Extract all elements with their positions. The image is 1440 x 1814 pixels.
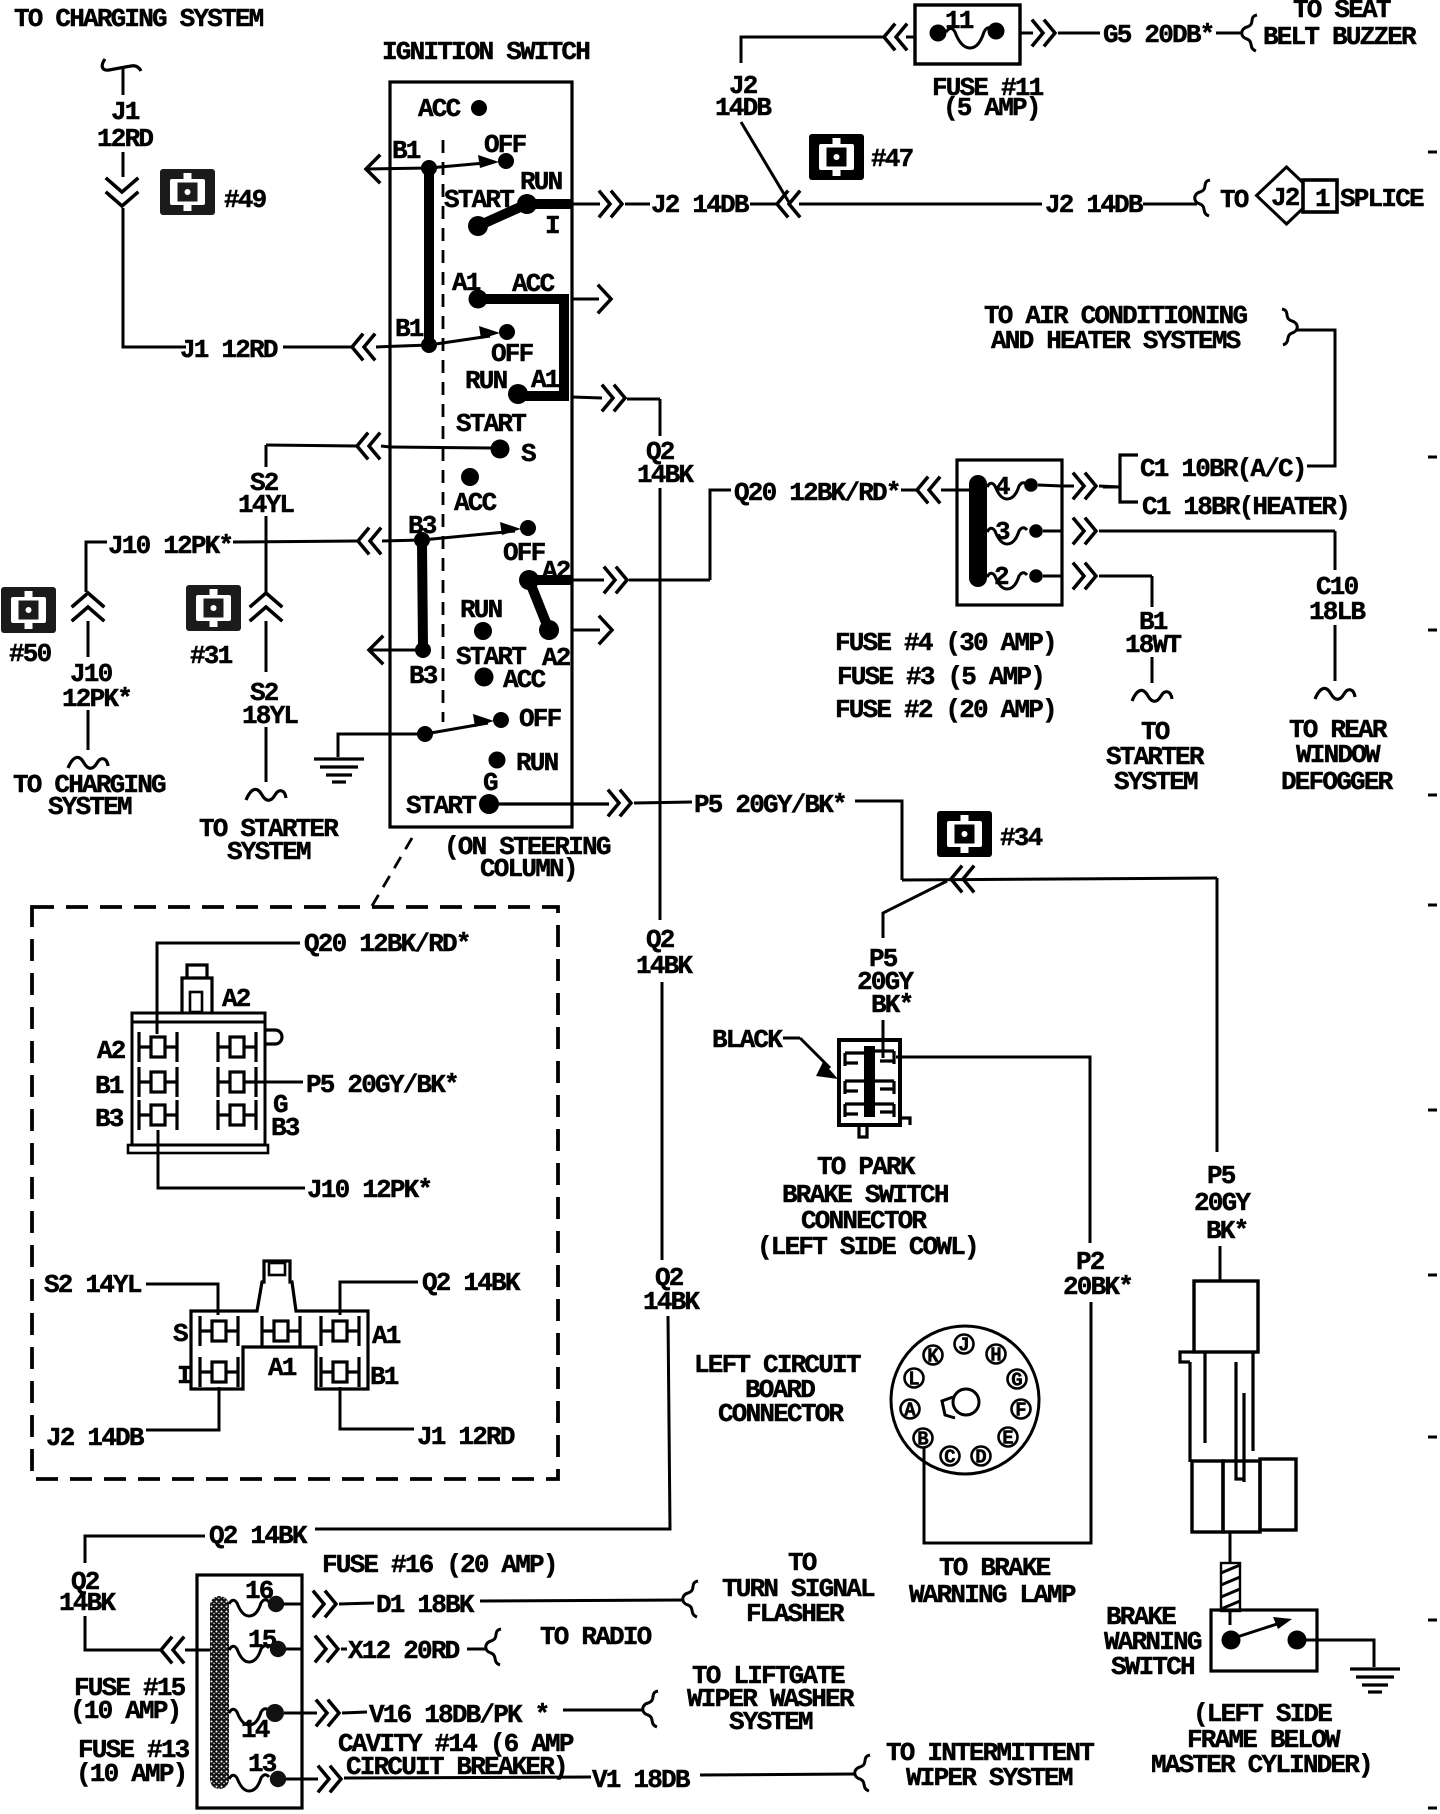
svg-text:OFF: OFF <box>484 130 527 160</box>
svg-text:#34: #34 <box>1000 823 1043 853</box>
svg-text:20GY: 20GY <box>1194 1188 1251 1218</box>
svg-text:14BK: 14BK <box>59 1588 116 1618</box>
A2 row2 output arrow <box>572 629 600 632</box>
svg-text:B1: B1 <box>370 1362 399 1392</box>
svg-text:IGNITION SWITCH: IGNITION SWITCH <box>382 37 589 67</box>
svg-text:A1: A1 <box>531 365 560 395</box>
svg-text:14DB: 14DB <box>715 93 772 123</box>
svg-text:BELT BUZZER: BELT BUZZER <box>1263 22 1417 52</box>
wire J10 from pin <box>158 1130 305 1188</box>
svg-text:SYSTEM: SYSTEM <box>1114 767 1198 797</box>
svg-text:J1 12RD: J1 12RD <box>180 335 278 365</box>
svg-text:C: C <box>944 1447 955 1469</box>
pin J <box>955 1335 974 1354</box>
bottom lip <box>128 1145 268 1153</box>
connector B outline <box>191 1261 368 1389</box>
svg-text:COLUMN): COLUMN) <box>480 854 577 884</box>
svg-text:(5 AMP): (5 AMP) <box>943 93 1040 123</box>
svg-text:20BK*: 20BK* <box>1063 1272 1132 1302</box>
svg-text:F: F <box>1015 1400 1026 1422</box>
wire to ground <box>1306 1640 1374 1667</box>
pin G <box>1008 1370 1027 1389</box>
svg-text:#49: #49 <box>224 185 267 215</box>
svg-text:S: S <box>173 1319 188 1349</box>
B3 bus bar <box>422 544 423 647</box>
ignition switch outline <box>390 82 572 827</box>
svg-text:H: H <box>990 1345 1001 1367</box>
svg-text:START: START <box>406 791 476 821</box>
wire J1 12RD down to corner <box>123 208 186 347</box>
bus bar <box>969 475 987 587</box>
pin L <box>905 1369 924 1388</box>
pin at 237,1082 <box>218 1067 256 1097</box>
svg-text:B3: B3 <box>409 661 438 691</box>
pin at 340,1372 <box>321 1357 359 1387</box>
top tab <box>182 978 212 1013</box>
pin at 158,1082 <box>139 1067 177 1097</box>
C10 18LB branch <box>1334 531 1337 570</box>
svg-text:BLACK: BLACK <box>712 1025 783 1055</box>
inline connector (double chevron) on J1 wire <box>107 179 137 206</box>
ACC output arrow <box>572 298 599 301</box>
svg-text:TO CHARGING SYSTEM: TO CHARGING SYSTEM <box>14 4 264 34</box>
svg-text:A1: A1 <box>268 1353 297 1383</box>
pin D <box>972 1447 991 1466</box>
wire from pivot to earth ground <box>338 734 425 757</box>
svg-text:DEFOGGER: DEFOGGER <box>1281 767 1394 797</box>
svg-text:14BK: 14BK <box>637 460 694 490</box>
right margin scan ticks <box>1428 151 1437 154</box>
thick A2 output to edge <box>529 575 572 585</box>
svg-text:FUSE #3 (5 AMP): FUSE #3 (5 AMP) <box>837 662 1044 692</box>
pin at 281,1331 <box>262 1316 300 1346</box>
splice symbol diamond J2 <box>1257 167 1317 224</box>
svg-text:G: G <box>1011 1370 1022 1392</box>
stub arrow left of B1 <box>366 168 429 169</box>
ACC dot (bank2) <box>475 668 494 687</box>
wire J1 from pin B1 <box>340 1387 414 1429</box>
svg-text:I: I <box>177 1361 191 1391</box>
earth ground (brake switch) <box>1350 1667 1400 1670</box>
B1 18WT branch <box>1151 576 1154 607</box>
wire J2 to fuse 11 <box>741 37 884 63</box>
svg-text:OFF: OFF <box>503 538 546 568</box>
svg-text:RUN: RUN <box>516 748 558 778</box>
pin A <box>901 1400 920 1419</box>
fuse block box <box>197 1575 302 1808</box>
svg-text:OFF: OFF <box>491 339 534 369</box>
wire J2 from pin I <box>146 1387 219 1430</box>
key center <box>953 1389 979 1415</box>
wire Q2 14BK vertical <box>659 399 662 436</box>
svg-text:S2 14YL: S2 14YL <box>44 1270 142 1300</box>
svg-text:Q2 14BK: Q2 14BK <box>209 1521 308 1551</box>
svg-text:CONNECTOR: CONNECTOR <box>718 1399 844 1429</box>
svg-text:FLASHER: FLASHER <box>746 1599 845 1629</box>
svg-text:G: G <box>483 768 498 798</box>
svg-text:RUN: RUN <box>465 366 507 396</box>
svg-text:A2: A2 <box>222 984 251 1014</box>
svg-text:K: K <box>927 1346 939 1368</box>
svg-text:SWITCH: SWITCH <box>1111 1652 1194 1682</box>
switch contacts <box>1222 1631 1241 1650</box>
svg-text:14BK: 14BK <box>636 951 693 981</box>
earth ground (steering column) <box>314 757 364 760</box>
wire AC bracket down to C1 <box>1297 330 1335 466</box>
connector double chevron B1 row <box>352 335 374 359</box>
brace before TO splice <box>1195 180 1210 216</box>
svg-text:BK*: BK* <box>1206 1216 1247 1246</box>
ACC middle dot <box>461 468 479 486</box>
svg-text:X12 20RD: X12 20RD <box>348 1636 460 1666</box>
svg-text:Q2 14BK: Q2 14BK <box>422 1268 521 1298</box>
svg-text:WARNING LAMP: WARNING LAMP <box>909 1580 1076 1610</box>
svg-text:B3: B3 <box>95 1104 124 1134</box>
svg-text:J10 12PK*: J10 12PK* <box>307 1175 431 1205</box>
svg-text:FUSE #4 (30 AMP): FUSE #4 (30 AMP) <box>835 628 1056 658</box>
ground symbol #34 <box>937 811 992 857</box>
svg-text:ACC: ACC <box>418 94 461 124</box>
svg-text:B1: B1 <box>95 1071 124 1101</box>
svg-text:P5 20GY/BK*: P5 20GY/BK* <box>306 1070 458 1100</box>
svg-text:A: A <box>904 1400 916 1422</box>
svg-text:J1: J1 <box>111 97 140 127</box>
ground symbol #31 <box>186 585 241 631</box>
svg-text:TO: TO <box>1220 185 1249 215</box>
RUN dot (bank3) <box>489 752 506 769</box>
ground pivot row <box>417 726 433 742</box>
svg-text:J2 14DB: J2 14DB <box>651 190 750 220</box>
wiper arm B1 lower -> OFF <box>429 336 490 345</box>
svg-text:B: B <box>917 1429 928 1451</box>
Q20 output wire <box>572 579 604 582</box>
svg-text:Q20 12BK/RD*: Q20 12BK/RD* <box>304 929 470 959</box>
svg-text:14BK: 14BK <box>643 1287 700 1317</box>
svg-text:A1: A1 <box>372 1321 401 1351</box>
svg-text:C1 18BR(HEATER): C1 18BR(HEATER) <box>1142 492 1349 522</box>
switch arm with arrow <box>1237 1624 1277 1637</box>
pin at 219,1372 <box>200 1357 238 1387</box>
svg-text:C1 10BR(A/C): C1 10BR(A/C) <box>1140 454 1306 484</box>
wire J10 12PK* <box>86 542 107 592</box>
wiper arm B1->OFF <box>429 163 485 168</box>
svg-text:(10 AMP): (10 AMP) <box>70 1696 180 1726</box>
pin at 237,1047 <box>218 1032 256 1062</box>
pin B <box>914 1429 933 1448</box>
svg-text:12RD: 12RD <box>97 124 153 154</box>
svg-text:A2: A2 <box>97 1036 126 1066</box>
svg-text:I: I <box>545 211 559 241</box>
fuse 11 element squiggle <box>946 28 993 48</box>
bracket joining C1 pair <box>1120 455 1138 502</box>
svg-text:V16 18DB/PK *: V16 18DB/PK * <box>369 1700 548 1730</box>
wire J1 12RD vertical <box>122 152 125 177</box>
S2 chain <box>265 445 268 467</box>
svg-text:14: 14 <box>241 1715 270 1745</box>
ground symbol #50 <box>1 587 56 633</box>
svg-text:#47: #47 <box>871 144 913 174</box>
svg-text:#50: #50 <box>9 639 52 669</box>
connector A body <box>128 965 282 1153</box>
svg-text:A2: A2 <box>542 643 571 673</box>
pin F <box>1012 1400 1031 1419</box>
fuse #11 box <box>915 5 1020 64</box>
svg-text:FUSE #16 (20 AMP): FUSE #16 (20 AMP) <box>322 1550 557 1580</box>
speckled bus bar <box>210 1596 229 1789</box>
thick wiper A2 -> lower <box>529 580 549 630</box>
dashed box <box>32 907 558 1479</box>
thick output RUN to box edge <box>527 199 572 209</box>
thick wiper START->RUN <box>478 204 527 226</box>
wire from connector to P2 <box>896 1057 1090 1243</box>
svg-text:RUN: RUN <box>460 595 502 625</box>
pin at 340,1331 <box>321 1316 359 1346</box>
pin E <box>999 1428 1018 1447</box>
pin at 158,1047 <box>139 1032 177 1062</box>
svg-text:12PK*: 12PK* <box>62 684 131 714</box>
fuse outputs <box>1038 485 1062 486</box>
svg-text:OFF: OFF <box>519 704 562 734</box>
svg-text:1: 1 <box>1315 184 1330 214</box>
A1/Q2 output <box>572 397 602 398</box>
svg-text:P5 20GY/BK*: P5 20GY/BK* <box>694 790 846 820</box>
svg-text:SYSTEM: SYSTEM <box>227 837 311 867</box>
P5 output wire <box>489 802 609 805</box>
pin at 158,1115 <box>139 1100 177 1130</box>
svg-text:S: S <box>521 439 536 469</box>
svg-text:(LEFT SIDE COWL): (LEFT SIDE COWL) <box>757 1232 978 1262</box>
wire to ignition switch B1 <box>283 346 352 349</box>
park brake switch connector (black comb) <box>839 1040 910 1137</box>
pin K <box>924 1346 943 1365</box>
pin at 237,1115 <box>218 1100 256 1130</box>
svg-text:ACC: ACC <box>454 488 497 518</box>
wire S2 from box <box>357 434 379 458</box>
svg-text:D1 18BK: D1 18BK <box>376 1590 475 1620</box>
svg-text:14YL: 14YL <box>238 490 294 520</box>
svg-text:18YL: 18YL <box>242 701 298 731</box>
svg-text:B1: B1 <box>392 136 421 166</box>
long P5 wire <box>902 878 1217 880</box>
B1 bus bar (thick) <box>424 172 434 344</box>
svg-text:MASTER CYLINDER): MASTER CYLINDER) <box>1151 1750 1372 1780</box>
svg-text:FUSE #2 (20 AMP): FUSE #2 (20 AMP) <box>835 695 1056 725</box>
svg-text:J2 14DB: J2 14DB <box>46 1423 145 1453</box>
svg-text:J2: J2 <box>1271 183 1300 213</box>
fuse block (4/3/2) box <box>957 460 1062 605</box>
svg-text:B1: B1 <box>395 314 424 344</box>
svg-text:ACC: ACC <box>503 665 546 695</box>
svg-text:E: E <box>1002 1428 1013 1450</box>
svg-text:SYSTEM: SYSTEM <box>729 1707 813 1737</box>
pin C <box>941 1447 960 1466</box>
svg-text:(10 AMP): (10 AMP) <box>76 1759 186 1789</box>
pin at 219,1331 <box>200 1316 238 1346</box>
svg-text:TO BRAKE: TO BRAKE <box>939 1553 1051 1583</box>
ground symbol #49 <box>160 169 215 215</box>
thick path A1 -> ACC out -> down -> RUN A1 <box>478 299 564 396</box>
svg-text:WINDOW: WINDOW <box>1296 740 1381 770</box>
svg-text:L: L <box>908 1369 919 1391</box>
screw/spring symbol <box>1221 1563 1240 1611</box>
brake switch connector drawing <box>1180 1281 1296 1532</box>
svg-text:P5: P5 <box>1207 1161 1236 1191</box>
START G contact <box>479 794 499 814</box>
dashed leader to connector detail <box>372 838 412 906</box>
right tab <box>265 1030 282 1044</box>
svg-text:BK*: BK* <box>871 990 912 1020</box>
svg-text:B3: B3 <box>271 1113 300 1143</box>
diagonal joining J2 run <box>741 122 790 204</box>
brake warning switch box <box>1211 1610 1317 1671</box>
svg-text:D: D <box>975 1447 986 1469</box>
ground symbol #47 <box>809 134 864 180</box>
svg-text:G5 20DB*: G5 20DB* <box>1103 20 1213 50</box>
J2 output wire <box>572 203 600 206</box>
svg-text:WIPER SYSTEM: WIPER SYSTEM <box>906 1763 1073 1793</box>
diagonal to P5 label <box>883 881 947 938</box>
circuit board circle <box>891 1326 1039 1474</box>
splice box 1 <box>1303 180 1337 212</box>
svg-text:18WT: 18WT <box>1125 630 1181 660</box>
pin H <box>987 1345 1006 1364</box>
svg-text:START: START <box>456 409 526 439</box>
svg-text:J1 12RD: J1 12RD <box>417 1422 515 1452</box>
svg-text:#31: #31 <box>190 641 233 671</box>
svg-text:SPLICE: SPLICE <box>1340 184 1424 214</box>
OFF contact (upper) <box>498 153 514 169</box>
svg-text:J2 14DB: J2 14DB <box>1045 190 1144 220</box>
dashed divider inside switch <box>442 140 445 722</box>
wire P5 from pin <box>256 1081 303 1084</box>
svg-text:11: 11 <box>945 6 974 36</box>
svg-text:TO PARK: TO PARK <box>817 1152 916 1182</box>
svg-text:V1 18DB: V1 18DB <box>592 1765 691 1795</box>
svg-text:18LB: 18LB <box>1309 597 1366 627</box>
svg-text:Q20 12BK/RD*: Q20 12BK/RD* <box>734 478 900 508</box>
svg-text:J10 12PK*: J10 12PK* <box>108 531 232 561</box>
stub to switch <box>1229 1532 1232 1562</box>
connector pigtail to charging system <box>102 59 141 71</box>
svg-text:RUN: RUN <box>520 167 562 197</box>
stub arrow left of B3 lower <box>369 649 423 652</box>
svg-text:J: J <box>958 1335 969 1357</box>
svg-text:TO RADIO: TO RADIO <box>540 1622 652 1652</box>
svg-text:SYSTEM: SYSTEM <box>48 792 132 822</box>
svg-text:AND HEATER SYSTEMS: AND HEATER SYSTEMS <box>991 326 1241 356</box>
